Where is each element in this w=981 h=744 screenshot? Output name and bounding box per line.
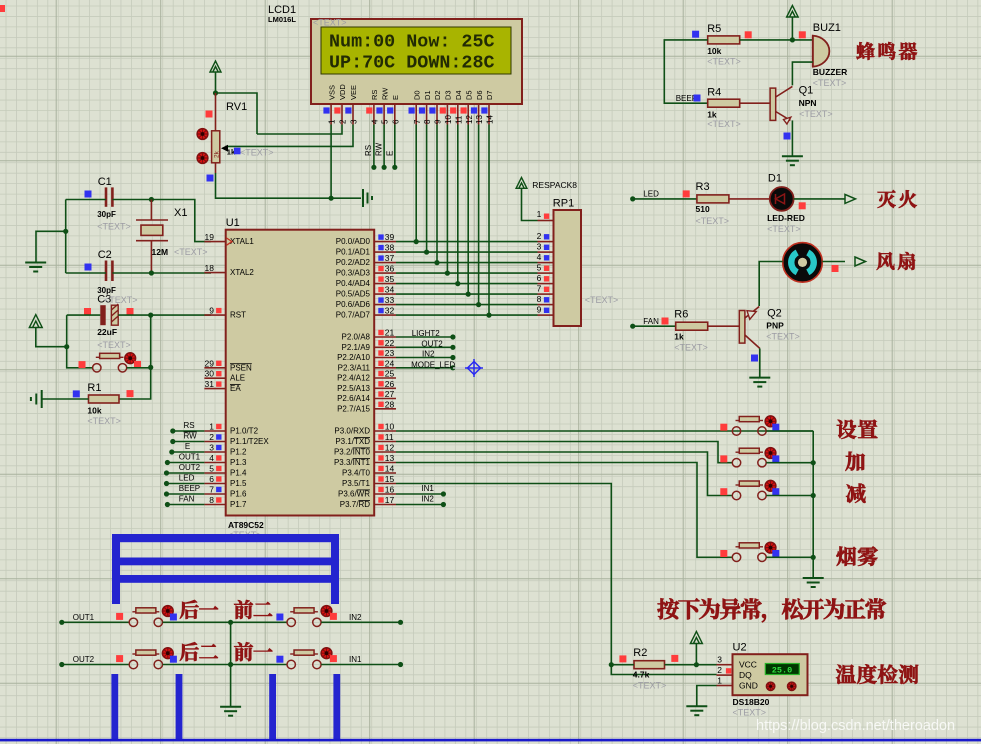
svg-text:XTAL2: XTAL2 bbox=[230, 268, 254, 277]
svg-text:P0.4/AD4: P0.4/AD4 bbox=[336, 279, 371, 288]
svg-text:10k: 10k bbox=[707, 46, 721, 56]
node VSS junction bbox=[329, 196, 334, 201]
svg-text:D2: D2 bbox=[433, 90, 442, 100]
probe square C3 left bbox=[84, 308, 91, 315]
LCD pins 1-14 bbox=[330, 104, 332, 125]
svg-text:RP1: RP1 bbox=[553, 198, 574, 210]
svg-text:IN2: IN2 bbox=[349, 613, 362, 622]
svg-text:1: 1 bbox=[717, 676, 722, 686]
probe square OUT1 bbox=[116, 613, 123, 620]
wire VEE pin3 elbow bbox=[226, 125, 354, 147]
wires D0-D7 down to P0 bus bbox=[415, 125, 417, 242]
node center row2 bbox=[228, 662, 233, 667]
wire switch to center row1 bbox=[163, 621, 287, 623]
svg-text:D0: D0 bbox=[412, 90, 421, 100]
wire LED to R3 bbox=[633, 198, 697, 200]
svg-text:P3.4/T0: P3.4/T0 bbox=[342, 469, 371, 478]
svg-text:U1: U1 bbox=[226, 217, 240, 229]
svg-text:FAN: FAN bbox=[643, 317, 659, 326]
svg-text:35: 35 bbox=[385, 274, 395, 284]
wire RV1 to VDD bbox=[216, 93, 258, 134]
svg-text:<TEXT>: <TEXT> bbox=[313, 18, 347, 28]
svg-text:14: 14 bbox=[385, 464, 395, 474]
svg-text:<TEXT>: <TEXT> bbox=[633, 681, 667, 691]
svg-text:MODE_LED: MODE_LED bbox=[411, 360, 455, 369]
svg-text:4: 4 bbox=[371, 119, 380, 124]
wire C1 right to X1 node bbox=[112, 199, 151, 201]
probe square buzzer left bbox=[799, 31, 806, 38]
wire E pin6 bbox=[394, 125, 396, 168]
chinese label jian bbox=[846, 483, 865, 502]
node RS bbox=[371, 165, 376, 170]
node X1 top bbox=[149, 197, 154, 202]
svg-text:<TEXT>: <TEXT> bbox=[696, 216, 730, 226]
wire R5 left bbox=[664, 40, 707, 103]
chinese label 前二 bbox=[234, 600, 253, 619]
svg-text:30pF: 30pF bbox=[97, 210, 116, 219]
svg-text:P3.0/RXD: P3.0/RXD bbox=[334, 427, 370, 436]
blue frame top bar bbox=[112, 534, 338, 542]
limit switch left row1 bbox=[129, 618, 137, 626]
probe square key2 right bbox=[772, 455, 779, 462]
chinese label shezhi bbox=[837, 420, 856, 439]
svg-text:P0.5/AD5: P0.5/AD5 bbox=[336, 290, 371, 299]
wire R5 right bbox=[740, 39, 793, 41]
svg-text:X1: X1 bbox=[174, 207, 187, 219]
svg-text:D6: D6 bbox=[475, 90, 484, 100]
chinese label 前一 bbox=[234, 642, 253, 661]
node E bbox=[392, 165, 397, 170]
probe square R5 right bbox=[745, 31, 752, 38]
probe square Q1 emitter bbox=[784, 133, 791, 140]
svg-text:<TEXT>: <TEXT> bbox=[733, 708, 767, 718]
blue frame mid bar bbox=[116, 558, 337, 566]
node key3 common bbox=[811, 493, 816, 498]
svg-text:34: 34 bbox=[385, 285, 395, 295]
probe square R5 left bbox=[692, 31, 699, 38]
wire keys common vertical bbox=[812, 431, 814, 578]
chinese label wendu bbox=[836, 665, 856, 684]
svg-text:7: 7 bbox=[413, 119, 422, 124]
IC U1 AT89C52 body bbox=[226, 230, 375, 516]
switch clicker right row1 bbox=[321, 606, 332, 617]
svg-text:11: 11 bbox=[454, 115, 463, 124]
chinese label 后一 bbox=[180, 600, 199, 619]
svg-text:<TEXT>: <TEXT> bbox=[707, 119, 741, 129]
wire RST bbox=[151, 314, 211, 316]
svg-text:P2.1/A9: P2.1/A9 bbox=[342, 343, 371, 352]
U2 pins bbox=[717, 664, 733, 666]
wire FAN to R6 bbox=[633, 325, 676, 327]
svg-text:P0.0/AD0: P0.0/AD0 bbox=[336, 237, 371, 246]
svg-text:33: 33 bbox=[385, 295, 395, 305]
wire R2 left stub bbox=[611, 664, 634, 666]
svg-text:Num:00 Now: 25C: Num:00 Now: 25C bbox=[329, 32, 495, 53]
svg-text:XTAL1: XTAL1 bbox=[230, 237, 254, 246]
probe square key2 left bbox=[720, 455, 727, 462]
svg-text:RS: RS bbox=[370, 90, 379, 100]
blue frame low bar bbox=[116, 575, 337, 583]
svg-text:24: 24 bbox=[385, 358, 395, 368]
resistor R5 bbox=[708, 36, 740, 44]
wire P3.5 to DS18B20 DQ bbox=[396, 484, 611, 665]
probe square left-mid row1 bbox=[170, 614, 177, 621]
svg-text:23: 23 bbox=[385, 348, 395, 358]
resistor R6 bbox=[676, 322, 708, 330]
svg-text:NPN: NPN bbox=[799, 98, 817, 108]
resistor R3 bbox=[697, 195, 729, 203]
transistor Q1 NPN bbox=[770, 88, 776, 120]
wire VSS pin1 down bbox=[330, 125, 332, 199]
svg-text:7: 7 bbox=[209, 485, 214, 495]
key1 clicker bbox=[765, 416, 776, 427]
svg-text:C1: C1 bbox=[98, 176, 112, 188]
svg-text:29: 29 bbox=[205, 358, 215, 368]
svg-text:E: E bbox=[385, 151, 394, 156]
wire R1 left bbox=[42, 398, 89, 400]
wire C3 right bbox=[118, 314, 151, 316]
chinese label fengshan bbox=[877, 252, 895, 270]
wire fan right bbox=[822, 261, 845, 263]
power terminal DS18B20 bbox=[690, 632, 702, 644]
wire to ground bbox=[36, 231, 66, 262]
svg-text:PSEN: PSEN bbox=[230, 363, 252, 372]
node power branch bbox=[64, 344, 69, 349]
svg-text:RW: RW bbox=[380, 87, 389, 100]
svg-text:5: 5 bbox=[209, 464, 214, 474]
svg-text:8: 8 bbox=[537, 294, 542, 304]
wire R6 right bbox=[708, 325, 740, 327]
chinese label yanwu bbox=[836, 546, 856, 565]
node IN1 bbox=[398, 662, 403, 667]
svg-text:VEE: VEE bbox=[349, 85, 358, 100]
svg-text:<TEXT>: <TEXT> bbox=[674, 342, 708, 352]
probe square BEEP bbox=[694, 95, 701, 102]
svg-text:AT89C52: AT89C52 bbox=[228, 520, 264, 530]
potentiometer RV1 bbox=[215, 93, 217, 131]
wire key3 right bbox=[766, 495, 813, 497]
probe square RV1 bottom bbox=[207, 175, 214, 182]
svg-text:6: 6 bbox=[537, 273, 542, 283]
svg-text:<TEXT>: <TEXT> bbox=[813, 78, 847, 88]
node R2 left bbox=[609, 662, 614, 667]
node OUT1 bbox=[59, 620, 64, 625]
ground center bbox=[220, 706, 241, 708]
probe square D1 right bbox=[799, 202, 806, 209]
wire net MODE_LED bbox=[396, 367, 453, 369]
wire P3.3 to key4 bbox=[396, 463, 732, 558]
svg-text:VDD: VDD bbox=[338, 84, 347, 100]
svg-text:RST: RST bbox=[230, 311, 246, 320]
wire OUT2 to switch bbox=[62, 664, 129, 666]
svg-text:30: 30 bbox=[205, 369, 215, 379]
svg-text:22uF: 22uF bbox=[97, 327, 117, 337]
probe square key1 right bbox=[772, 424, 779, 431]
resistor pack RP1 pins bbox=[538, 220, 554, 222]
svg-text:510: 510 bbox=[696, 204, 710, 214]
svg-text:7: 7 bbox=[537, 284, 542, 294]
svg-text:1: 1 bbox=[537, 209, 542, 219]
blue leg 3 bbox=[269, 674, 276, 740]
svg-text:R2: R2 bbox=[633, 647, 647, 659]
switch clicker right row2 bbox=[321, 648, 332, 659]
reset button clicker bbox=[125, 353, 136, 364]
svg-text:R4: R4 bbox=[707, 87, 721, 99]
wire switch to IN1 bbox=[321, 664, 400, 666]
motor fan bbox=[783, 243, 823, 283]
probe square RV1 wiper bbox=[234, 148, 241, 155]
svg-text:E: E bbox=[185, 442, 190, 451]
svg-text:1: 1 bbox=[328, 119, 337, 124]
wire net IN2 bbox=[396, 357, 453, 359]
probe square left-mid row2 bbox=[170, 656, 177, 663]
svg-text:5: 5 bbox=[537, 263, 542, 273]
U1 P1 net label wires bbox=[173, 430, 205, 432]
svg-text:<TEXT>: <TEXT> bbox=[799, 109, 833, 119]
probe square key4 right bbox=[772, 550, 779, 557]
node X1 bottom bbox=[149, 270, 154, 275]
blue frame left post bbox=[112, 534, 120, 604]
svg-text:DQ: DQ bbox=[739, 670, 752, 680]
wire RW pin5 bbox=[383, 125, 385, 168]
node center row1 bbox=[228, 620, 233, 625]
probe square key3 left bbox=[720, 488, 727, 495]
U1 P3 pins bbox=[374, 430, 396, 432]
svg-text:21: 21 bbox=[385, 328, 395, 338]
svg-text:P0.3/AD3: P0.3/AD3 bbox=[336, 269, 371, 278]
svg-text:9: 9 bbox=[537, 305, 542, 315]
svg-text:18: 18 bbox=[205, 263, 215, 273]
svg-text:<TEXT>: <TEXT> bbox=[104, 295, 138, 305]
svg-text:10k: 10k bbox=[87, 406, 101, 416]
svg-text:PNP: PNP bbox=[766, 320, 784, 330]
svg-text:R3: R3 bbox=[696, 181, 710, 193]
node key4 common bbox=[811, 555, 816, 560]
blue leg 2 bbox=[176, 674, 183, 740]
svg-text:<TEXT>: <TEXT> bbox=[766, 332, 800, 342]
svg-text:OUT2: OUT2 bbox=[73, 655, 95, 664]
svg-text:28: 28 bbox=[385, 399, 395, 409]
push button key2 bbox=[732, 459, 740, 467]
svg-text:11: 11 bbox=[385, 432, 394, 442]
wire DQ elbow bbox=[611, 665, 716, 675]
probe square C1 bbox=[85, 191, 92, 198]
push button key3 bbox=[732, 491, 740, 499]
chinese label 后二 bbox=[180, 642, 199, 661]
svg-text:IN2: IN2 bbox=[422, 350, 435, 359]
svg-text:P1.1/T2EX: P1.1/T2EX bbox=[230, 437, 269, 446]
svg-text:P1.7: P1.7 bbox=[230, 500, 247, 509]
U1 P1 pins bbox=[204, 430, 225, 432]
key3 clicker bbox=[765, 480, 776, 491]
svg-text:OUT1: OUT1 bbox=[73, 613, 95, 622]
svg-text:P1.2: P1.2 bbox=[230, 448, 247, 457]
cursor crosshair bbox=[465, 359, 483, 377]
svg-text:P2.7/A15: P2.7/A15 bbox=[337, 404, 370, 413]
svg-text:2: 2 bbox=[537, 231, 542, 241]
svg-text:P1.4: P1.4 bbox=[230, 469, 247, 478]
wire R2 right bbox=[665, 664, 717, 666]
nodes P0-LCD junctions bbox=[414, 239, 419, 244]
RV1 adjust down knob bbox=[197, 153, 208, 164]
svg-text:P2.3/A11: P2.3/A11 bbox=[338, 363, 371, 372]
wire reset right bbox=[127, 367, 151, 369]
wire C1 left bbox=[66, 199, 106, 201]
svg-text:LED: LED bbox=[643, 189, 659, 198]
temperature sensor U2 DS18B20 body bbox=[733, 654, 808, 695]
svg-text:P0.7/AD7: P0.7/AD7 bbox=[336, 311, 371, 320]
wire C2 left bbox=[66, 272, 106, 274]
wire X1 top to XTAL1 bbox=[151, 200, 211, 242]
limit switch right row2 bbox=[287, 660, 295, 668]
probe square R2 right bbox=[671, 655, 678, 662]
svg-text:19: 19 bbox=[205, 232, 215, 242]
node key2 common bbox=[811, 460, 816, 465]
node reset right bbox=[148, 365, 153, 370]
probe square R6 left bbox=[662, 318, 669, 325]
chinese label anxia bbox=[657, 598, 679, 619]
svg-text:12: 12 bbox=[465, 115, 474, 124]
probe square right-mid row2 bbox=[276, 656, 283, 663]
svg-text:OUT2: OUT2 bbox=[179, 463, 201, 472]
probe square OUT2 bbox=[116, 655, 123, 662]
svg-text:27: 27 bbox=[385, 389, 395, 399]
svg-text:38: 38 bbox=[385, 243, 395, 253]
push button reset bbox=[93, 364, 101, 372]
wire P3.2 to key3 bbox=[396, 452, 732, 496]
svg-text:P1.0/T2: P1.0/T2 bbox=[230, 427, 259, 436]
svg-text:Q1: Q1 bbox=[799, 84, 814, 96]
wire R4 right bbox=[740, 102, 770, 104]
svg-text:<TEXT>: <TEXT> bbox=[585, 295, 619, 305]
wire buzzer pin2 bbox=[792, 62, 812, 85]
svg-text:OUT2: OUT2 bbox=[421, 339, 443, 348]
svg-text:D7: D7 bbox=[485, 90, 494, 100]
push button key1 bbox=[732, 427, 740, 435]
limit switch right row1 bbox=[287, 618, 295, 626]
svg-text:P3.3/INT1: P3.3/INT1 bbox=[334, 458, 371, 467]
wire switch to IN2 bbox=[321, 621, 400, 623]
wire key2 right bbox=[766, 462, 813, 464]
svg-text:1k: 1k bbox=[674, 332, 684, 342]
push button key4 bbox=[732, 553, 740, 561]
ground U2 bbox=[686, 705, 707, 707]
svg-text:2: 2 bbox=[209, 432, 214, 442]
svg-text:LED: LED bbox=[179, 474, 195, 483]
svg-text:RS: RS bbox=[184, 421, 195, 430]
svg-text:P0.6/AD6: P0.6/AD6 bbox=[336, 300, 371, 309]
probe square key1 left bbox=[720, 424, 727, 431]
svg-text:E: E bbox=[391, 95, 400, 100]
svg-text:P3.1/TXD: P3.1/TXD bbox=[335, 437, 370, 446]
svg-text:<TEXT>: <TEXT> bbox=[240, 148, 274, 158]
probe square fan right bbox=[832, 265, 839, 272]
limit switch left row2 bbox=[129, 660, 137, 668]
svg-text:BEEP: BEEP bbox=[179, 484, 200, 493]
corner red mark bbox=[0, 5, 5, 12]
svg-text:1: 1 bbox=[209, 422, 214, 432]
probe square R2 left bbox=[619, 655, 626, 662]
wire fan left bbox=[759, 262, 783, 307]
svg-text:12: 12 bbox=[385, 443, 395, 453]
key2 clicker bbox=[765, 448, 776, 459]
power terminal buzzer bbox=[787, 6, 799, 18]
U2 temperature display bbox=[765, 664, 799, 675]
svg-text:12M: 12M bbox=[152, 247, 169, 257]
wire VDD pin2 elbow bbox=[257, 125, 342, 135]
svg-text:P2.2/A10: P2.2/A10 bbox=[337, 353, 370, 362]
svg-text:1k: 1k bbox=[707, 109, 717, 119]
LCD LM016L body bbox=[311, 19, 522, 104]
probe square U2 DQ bbox=[726, 668, 731, 673]
RV1 adjust up knob bbox=[197, 129, 208, 140]
svg-text:https://blog.csdn.net/theroado: https://blog.csdn.net/theroadon bbox=[756, 718, 955, 734]
wire R3 to D1 bbox=[729, 198, 770, 200]
LCD screen bbox=[321, 27, 511, 74]
switch clicker left row2 bbox=[162, 648, 173, 659]
probe square IN1 bbox=[330, 655, 337, 662]
resistor R2 bbox=[634, 661, 665, 669]
svg-text:IN1: IN1 bbox=[421, 484, 434, 493]
ground at VSS bbox=[362, 189, 364, 207]
svg-text:D5: D5 bbox=[464, 90, 473, 100]
probe square C3 right bbox=[127, 308, 134, 315]
probe square IN2 bbox=[330, 613, 337, 620]
svg-text:R1: R1 bbox=[87, 382, 101, 394]
wire net IN2 p3.7 bbox=[396, 504, 443, 506]
pending wire segment bbox=[453, 367, 471, 369]
U1 left control pins bbox=[204, 241, 225, 243]
wire switch to center row2 bbox=[163, 664, 287, 666]
ground C1C2 bbox=[25, 262, 46, 264]
node VCC R2 bbox=[694, 662, 699, 667]
svg-text:D1: D1 bbox=[423, 90, 432, 100]
svg-text:ALE: ALE bbox=[230, 374, 245, 383]
wire C3 left vertical bbox=[67, 315, 93, 368]
svg-text:36: 36 bbox=[385, 264, 395, 274]
svg-text:4.7k: 4.7k bbox=[633, 670, 650, 680]
svg-text:14: 14 bbox=[486, 115, 495, 124]
U2 knob up bbox=[766, 682, 774, 690]
svg-text:BUZ1: BUZ1 bbox=[813, 22, 841, 34]
svg-text:22: 22 bbox=[385, 338, 395, 348]
svg-text:P3.2/INT0: P3.2/INT0 bbox=[334, 448, 371, 457]
svg-text:<TEXT>: <TEXT> bbox=[767, 224, 801, 234]
svg-text:D1: D1 bbox=[768, 172, 782, 184]
svg-text:4: 4 bbox=[537, 252, 542, 262]
svg-text:13: 13 bbox=[385, 453, 395, 463]
wire P3.1 to key2 bbox=[396, 442, 732, 463]
wire RV1 bottom bbox=[216, 173, 332, 198]
wire D1 to terminal bbox=[794, 198, 845, 200]
U2 knob down bbox=[788, 682, 796, 690]
wire P3.0 to key1 bbox=[396, 430, 813, 432]
svg-text:32: 32 bbox=[385, 306, 395, 316]
svg-text:R5: R5 bbox=[707, 23, 721, 35]
svg-text:10: 10 bbox=[385, 422, 395, 432]
svg-text:UP:70C DOWN:28C: UP:70C DOWN:28C bbox=[329, 53, 495, 74]
wire RST vertical bbox=[119, 315, 151, 399]
svg-text:D3: D3 bbox=[444, 90, 453, 100]
blue leg 1 bbox=[111, 674, 118, 740]
switch clicker left row1 bbox=[162, 606, 173, 617]
svg-text:VSS: VSS bbox=[327, 85, 336, 100]
wire Q2 collector down bbox=[759, 348, 761, 377]
capacitor C3 22uF bbox=[100, 305, 105, 325]
wire key4 right bbox=[766, 556, 813, 558]
wire net LIGHT2 bbox=[396, 336, 453, 338]
svg-text:2k: 2k bbox=[214, 150, 221, 158]
